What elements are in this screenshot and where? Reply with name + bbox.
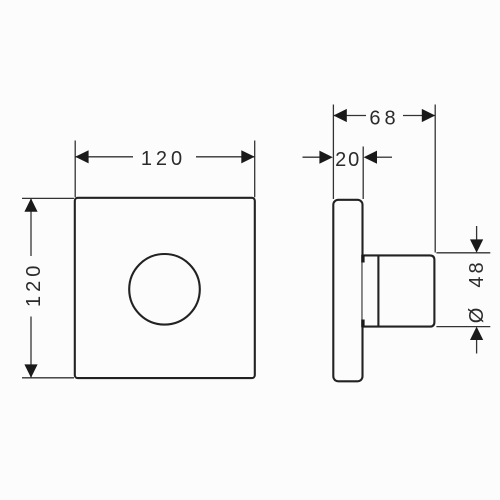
dimension line diameter 48 (top outside tail) — [476, 226, 478, 240]
arrowhead top of 120 left — [24, 198, 37, 211]
dimension line 120 top (left segment) — [75, 156, 133, 158]
extension line right of top 120 dim — [254, 141, 256, 198]
value label 120 top — [141, 148, 186, 170]
extension line bottom of left 120 dim — [22, 377, 74, 379]
value label diameter 48 (rotated) — [466, 259, 488, 323]
arrowhead right of 120 top — [241, 150, 254, 163]
extension line bottom of diameter 48 dim — [436, 326, 490, 328]
knob circle (front view) — [129, 254, 200, 325]
knob side view body — [363, 255, 435, 326]
dimension line 120 left (bottom segment) — [30, 317, 32, 378]
dimension line 68 (left segment) — [333, 115, 366, 117]
extension line left of top 120 dim — [74, 141, 76, 198]
arrowhead bottom of diameter 48 (pointing up) — [470, 327, 483, 340]
collar junction tick top — [361, 255, 364, 263]
dimension line diameter 48 (bottom outside tail) — [476, 340, 478, 354]
extension line top of diameter 48 dim — [436, 252, 490, 254]
extension line left of 68 dim — [332, 105, 334, 200]
dimension line 120 left (top segment) — [30, 198, 32, 256]
arrowhead right of 20 (pointing left) — [364, 151, 377, 164]
extension line top of left 120 dim — [22, 197, 74, 199]
front plate outline (square 120x120) — [75, 198, 255, 378]
extension line right of 20 dim — [362, 147, 364, 200]
wall plate side view (20 thick) — [333, 200, 362, 381]
svg-text:Ø 48: Ø 48 — [466, 259, 488, 323]
value label 20 — [335, 149, 361, 171]
arrowhead right of 68 — [422, 109, 435, 122]
extension line right of 68 dim — [434, 105, 436, 253]
dimension line 20 (left outside tail) — [303, 156, 321, 158]
svg-text:20: 20 — [335, 149, 361, 171]
knob collar line — [377, 255, 379, 326]
arrowhead left of 68 — [333, 109, 346, 122]
svg-text:120: 120 — [23, 262, 45, 307]
dimension line 120 top (right segment) — [196, 156, 255, 158]
collar junction tick bottom — [361, 320, 364, 328]
value label 68 — [369, 108, 399, 130]
value label 120 left (rotated) — [23, 262, 45, 307]
arrowhead top of diameter 48 (pointing down) — [470, 239, 483, 252]
svg-text:120: 120 — [141, 148, 186, 170]
arrowhead bottom of 120 left — [24, 364, 37, 377]
dimension line 20 (right outside tail) — [377, 156, 392, 158]
dimension line 68 (right segment) — [403, 115, 435, 117]
arrowhead left of 120 top — [75, 150, 88, 163]
svg-text:68: 68 — [369, 108, 399, 130]
arrowhead left of 20 (pointing right) — [319, 151, 332, 164]
